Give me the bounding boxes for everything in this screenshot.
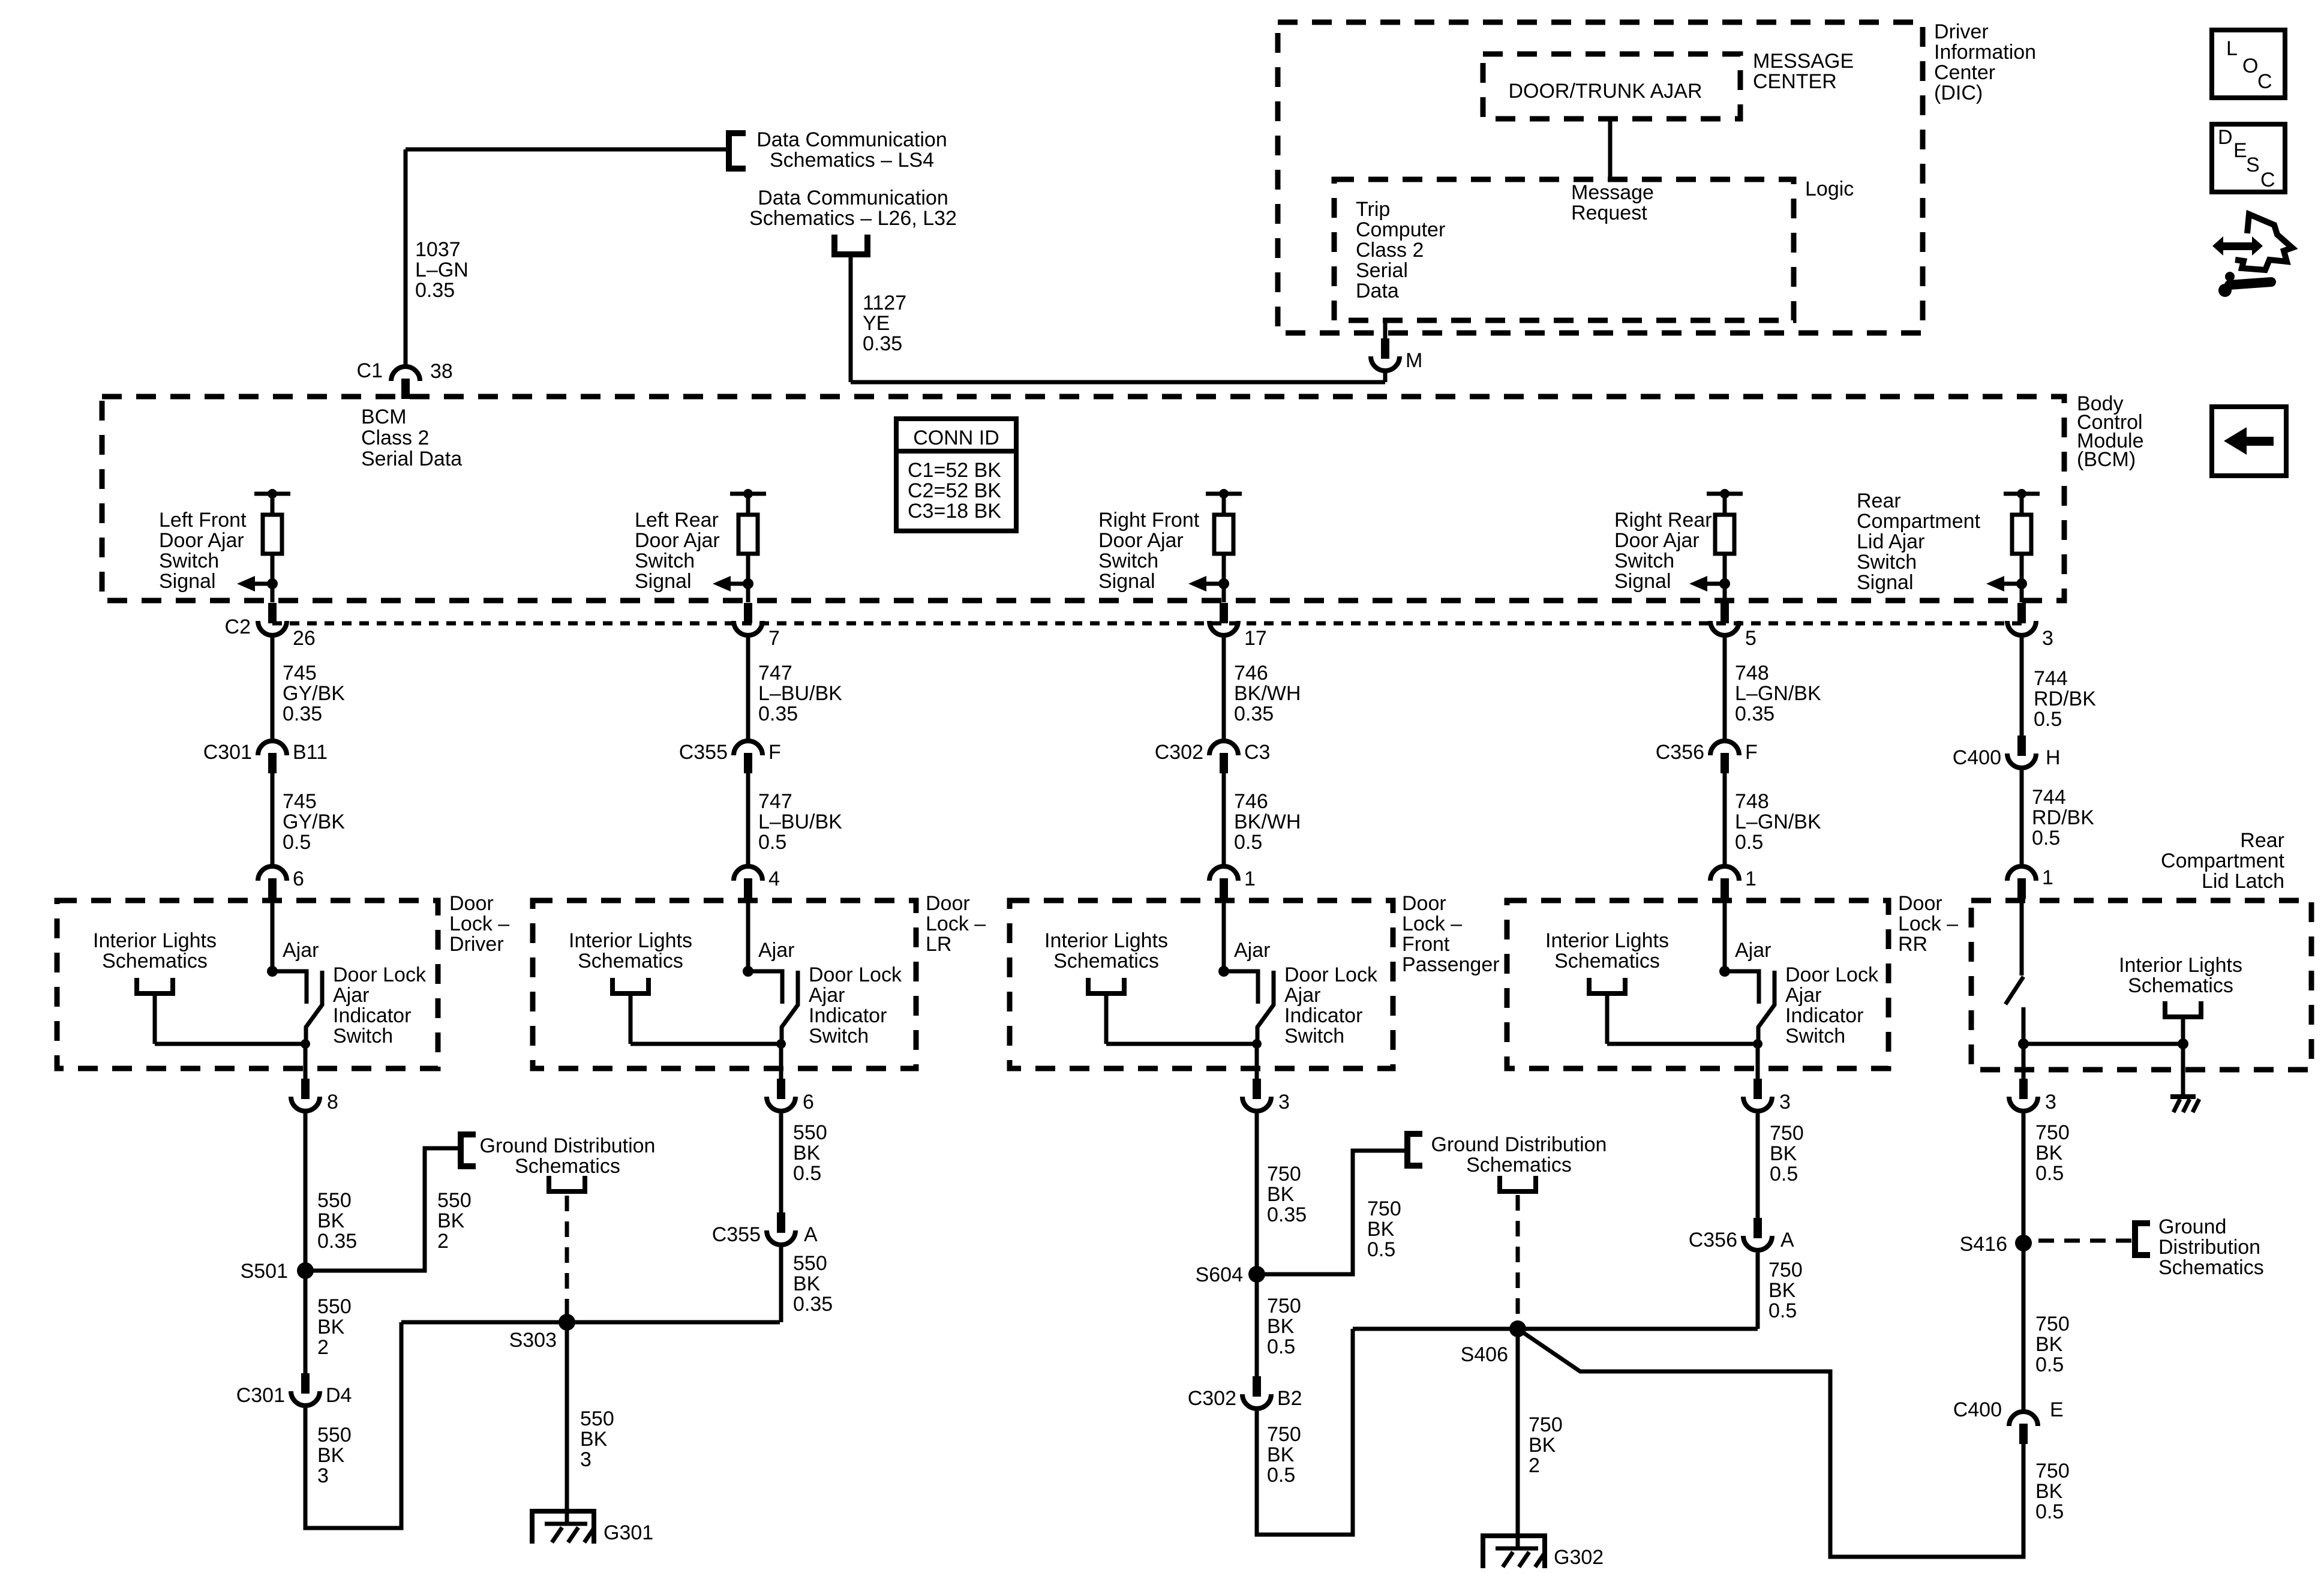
svg-text:Ajar: Ajar xyxy=(283,939,319,962)
svg-text:Interior LightsSchematics: Interior LightsSchematics xyxy=(93,929,217,972)
svg-text:C2: C2 xyxy=(225,616,251,638)
svg-text:C356: C356 xyxy=(1656,741,1704,764)
svg-text:5: 5 xyxy=(1745,627,1756,650)
svg-text:M: M xyxy=(1406,349,1422,372)
svg-text:38: 38 xyxy=(430,360,453,383)
svg-text:O: O xyxy=(2242,55,2258,77)
svg-text:F: F xyxy=(1745,741,1758,764)
svg-text:B11: B11 xyxy=(293,741,328,764)
svg-text:H: H xyxy=(2046,746,2061,769)
svg-text:S406: S406 xyxy=(1461,1343,1508,1366)
svg-text:C1=52 BKC2=52 BKC3=18 BK: C1=52 BKC2=52 BKC3=18 BK xyxy=(908,459,1001,523)
svg-text:A: A xyxy=(804,1223,818,1246)
svg-text:Logic: Logic xyxy=(1805,178,1854,200)
svg-text:C1: C1 xyxy=(357,359,383,382)
svg-text:3: 3 xyxy=(2045,1091,2056,1113)
svg-text:CONN ID: CONN ID xyxy=(913,427,999,449)
svg-text:17: 17 xyxy=(1244,627,1267,650)
svg-text:C301: C301 xyxy=(203,741,252,764)
svg-text:C3: C3 xyxy=(1244,741,1270,764)
svg-text:G302: G302 xyxy=(1554,1546,1604,1569)
svg-text:F: F xyxy=(768,741,781,764)
svg-text:C355: C355 xyxy=(712,1223,761,1246)
svg-text:8: 8 xyxy=(327,1091,338,1113)
svg-text:3: 3 xyxy=(1278,1091,1290,1113)
svg-text:6: 6 xyxy=(803,1091,814,1113)
svg-text:S303: S303 xyxy=(509,1329,557,1352)
svg-text:6: 6 xyxy=(293,867,304,890)
svg-text:C302: C302 xyxy=(1155,741,1203,764)
svg-text:C355: C355 xyxy=(679,741,728,764)
svg-text:C400: C400 xyxy=(1953,1398,2002,1421)
svg-text:Data CommunicationSchematics –: Data CommunicationSchematics – LS4 xyxy=(756,128,947,172)
svg-text:S: S xyxy=(2246,154,2260,176)
svg-text:D4: D4 xyxy=(326,1384,352,1407)
svg-text:26: 26 xyxy=(293,627,316,650)
svg-text:C302: C302 xyxy=(1188,1387,1236,1410)
svg-text:S501: S501 xyxy=(241,1260,288,1283)
svg-text:Data CommunicationSchematics –: Data CommunicationSchematics – L26, L32 xyxy=(749,187,957,230)
svg-text:Interior LightsSchematics: Interior LightsSchematics xyxy=(1044,929,1168,972)
svg-text:L: L xyxy=(2226,37,2238,60)
svg-text:C: C xyxy=(2260,169,2275,191)
svg-text:G301: G301 xyxy=(603,1521,653,1544)
svg-text:S416: S416 xyxy=(1960,1233,2007,1256)
svg-text:1: 1 xyxy=(2042,866,2053,889)
svg-text:3: 3 xyxy=(2042,627,2053,650)
svg-text:1: 1 xyxy=(1745,867,1756,890)
svg-text:1: 1 xyxy=(1244,867,1256,890)
svg-text:E: E xyxy=(2233,139,2247,162)
svg-text:S604: S604 xyxy=(1196,1263,1243,1286)
svg-text:Ajar: Ajar xyxy=(1735,939,1771,962)
svg-text:Interior LightsSchematics: Interior LightsSchematics xyxy=(1545,929,1669,972)
svg-text:7: 7 xyxy=(768,627,780,650)
svg-text:B2: B2 xyxy=(1277,1387,1302,1410)
svg-text:C356: C356 xyxy=(1689,1229,1737,1251)
svg-text:DOOR/TRUNK AJAR: DOOR/TRUNK AJAR xyxy=(1508,80,1702,103)
svg-text:C301: C301 xyxy=(236,1384,285,1407)
svg-text:Interior LightsSchematics: Interior LightsSchematics xyxy=(569,929,692,972)
svg-text:Ajar: Ajar xyxy=(758,939,794,962)
svg-text:3: 3 xyxy=(1779,1091,1791,1113)
svg-text:4: 4 xyxy=(768,867,780,890)
svg-text:Ajar: Ajar xyxy=(1234,939,1270,962)
svg-text:C: C xyxy=(2257,70,2272,93)
svg-text:E: E xyxy=(2050,1398,2064,1421)
svg-text:D: D xyxy=(2218,126,2233,149)
svg-text:C400: C400 xyxy=(1953,746,2001,769)
svg-text:MessageRequest: MessageRequest xyxy=(1571,181,1654,224)
svg-text:A: A xyxy=(1780,1229,1794,1251)
svg-text:Interior LightsSchematics: Interior LightsSchematics xyxy=(2119,954,2242,997)
